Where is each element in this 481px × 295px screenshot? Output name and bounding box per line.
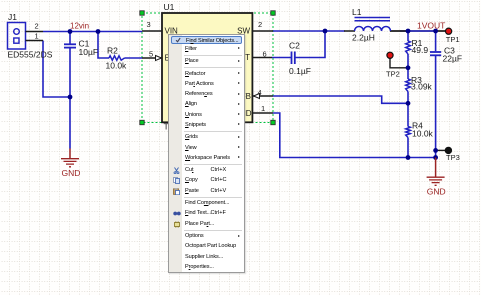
junction node C3 TP3 (433, 148, 438, 153)
test point TP2 (387, 52, 408, 68)
svg-text:U1: U1 (164, 2, 175, 12)
capacitor C2 (292, 52, 295, 65)
context menu (168, 34, 245, 273)
resistor R3 (406, 79, 411, 92)
wire C3 branch (435, 31, 437, 158)
svg-text:0.1µF: 0.1µF (289, 66, 311, 76)
U1 pin 4 arrow (254, 94, 260, 99)
svg-text:C2: C2 (289, 41, 300, 51)
junction node 12vin C1 (68, 29, 73, 34)
junction node SW C2 (323, 29, 328, 34)
svg-text:ED555/2DS: ED555/2DS (8, 50, 53, 60)
svg-text:12vin: 12vin (70, 22, 89, 31)
svg-text:2: 2 (258, 20, 262, 29)
svg-text:R2: R2 (107, 46, 118, 56)
svg-text:2.2µH: 2.2µH (352, 33, 375, 43)
svg-text:3: 3 (147, 20, 151, 29)
wire L1 to vout node (390, 30, 446, 32)
test point TP3 (437, 147, 452, 153)
svg-text:6: 6 (263, 50, 267, 59)
svg-text:22µF: 22µF (443, 54, 463, 64)
wire J1 pin1 down to C1 bottom node (43, 41, 70, 98)
junction node R3 R4 FB (406, 101, 411, 106)
resistor R1 (406, 41, 411, 54)
ground GND right (427, 158, 446, 197)
wire SW to L1 (273, 30, 345, 32)
wire U1 pin6 to C2 (272, 57, 291, 59)
selection box around U1 (140, 11, 275, 125)
svg-text:L1: L1 (352, 7, 362, 17)
svg-text:1: 1 (35, 32, 39, 41)
resistor R4 (406, 127, 411, 138)
svg-text:10.0k: 10.0k (412, 129, 434, 139)
svg-text:TP3: TP3 (446, 153, 460, 162)
connector J1 (8, 23, 26, 50)
inductor L1 (355, 18, 391, 32)
U1 pin 5 (142, 57, 162, 59)
svg-text:1: 1 (261, 104, 265, 113)
wire vin rail J1 to U1 pin3 (43, 31, 142, 33)
capacitor C1 (64, 44, 76, 47)
wire R2 to U1 pin5 (125, 57, 143, 59)
U1 pin 6 (252, 57, 272, 59)
junction node vout C3 (433, 29, 438, 34)
wire C2 up to SW rail (295, 31, 325, 58)
svg-text:49.9: 49.9 (412, 45, 429, 55)
svg-text:GND: GND (427, 187, 446, 197)
U1 pin 2 (252, 30, 273, 32)
junction node vout R1 (406, 29, 411, 34)
svg-text:3.09k: 3.09k (411, 82, 433, 92)
svg-text:TP1: TP1 (446, 35, 460, 44)
wire C1 branch (69, 32, 71, 149)
resistor R2 (109, 56, 125, 60)
junction node R1 R3 TP2 (406, 65, 411, 70)
svg-text:10µF: 10µF (79, 47, 99, 57)
capacitor C3 (430, 52, 441, 55)
U1 pin 5 arrow (156, 56, 162, 61)
svg-text:5: 5 (149, 50, 153, 59)
U1 pin 1 (252, 112, 273, 114)
svg-text:4: 4 (258, 88, 262, 97)
wire vout node segment (400, 30, 437, 32)
wire U1 pin4 feedback (273, 96, 408, 103)
U1 pin 4 (252, 95, 273, 97)
J1 pin 2 (26, 31, 44, 33)
junction node 12vin R2 (96, 29, 101, 34)
svg-text:J1: J1 (8, 12, 17, 22)
junction node C3 bottom (433, 155, 438, 160)
J1 pin 1 (26, 40, 44, 42)
svg-text:TP2: TP2 (386, 70, 400, 79)
svg-text:GND: GND (62, 168, 81, 178)
svg-text:2: 2 (35, 22, 39, 31)
wire R2 branch (98, 32, 109, 59)
svg-text:10.0k: 10.0k (106, 61, 128, 71)
inductor L1 pins (344, 30, 408, 32)
junction node R4 bottom (406, 155, 411, 160)
ground GND left (61, 149, 80, 179)
wire U1 pin1 to bottom rail (273, 113, 436, 158)
U1 pin 3 (142, 30, 162, 32)
wire R1 chain (407, 31, 409, 158)
junction node C1 J1 gnd (68, 95, 73, 100)
test point TP1 (437, 28, 452, 34)
op-amp U1 body (162, 13, 252, 122)
svg-text:1VOUT: 1VOUT (417, 21, 445, 31)
